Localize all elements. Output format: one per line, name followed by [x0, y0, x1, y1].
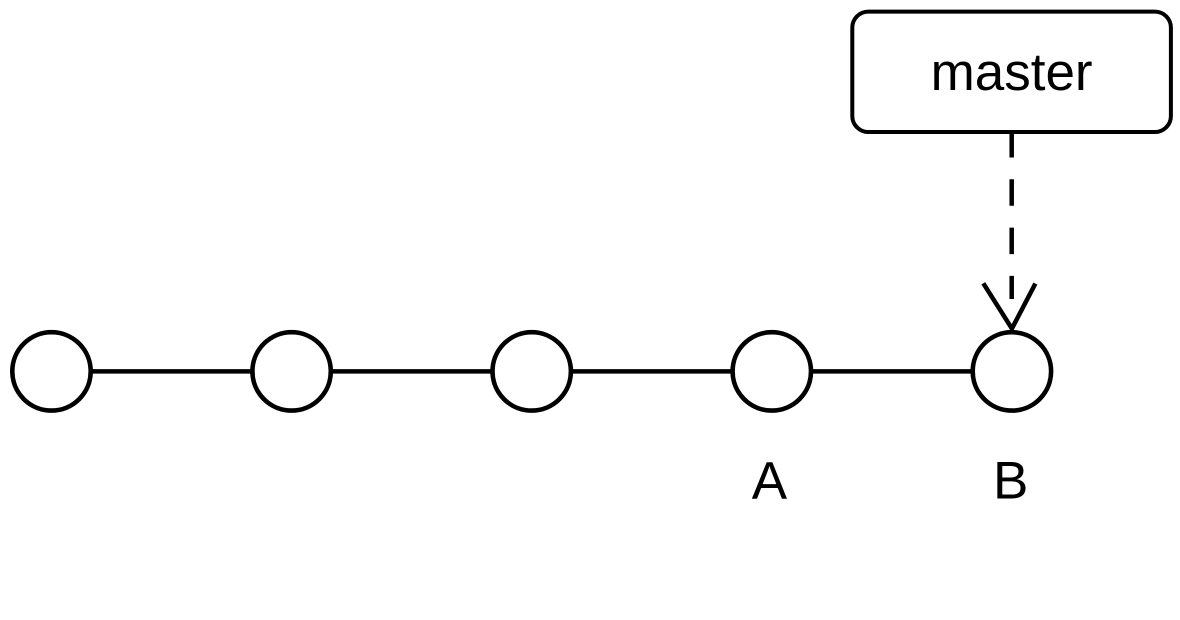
commit node 5 (B) — [973, 332, 1051, 410]
svg-text:master: master — [931, 43, 1093, 102]
svg-text:A: A — [752, 452, 788, 511]
branch box master — [852, 12, 1171, 132]
commit node 2 — [252, 332, 330, 410]
commit node 4 (A) — [733, 332, 811, 410]
arrowhead — [983, 283, 1035, 328]
svg-text:B: B — [993, 452, 1028, 511]
dashed pointer line from master to B — [1009, 131, 1014, 299]
wire commit chain — [52, 369, 1012, 374]
commit node 1 — [12, 332, 90, 410]
commit node 3 — [493, 332, 571, 410]
